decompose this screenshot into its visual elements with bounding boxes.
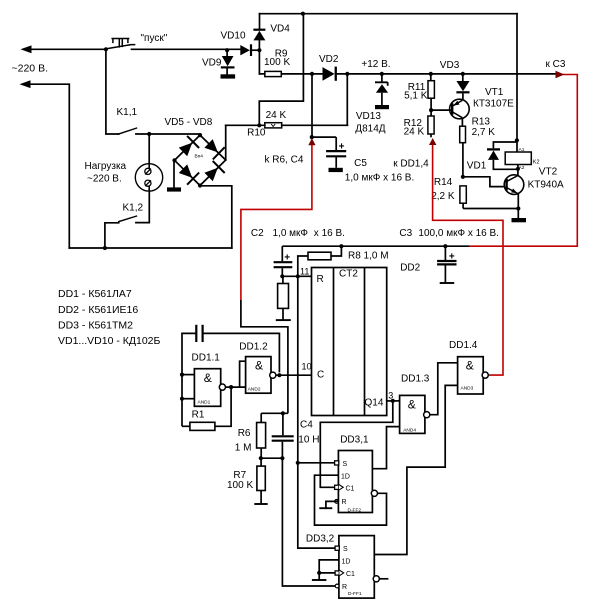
diode VD6 (bridge top-right, cathode right vertex) — [204, 139, 224, 159]
svg-text:&: & — [466, 358, 474, 372]
svg-text:11: 11 — [300, 266, 309, 276]
relay contact K1,2 blade — [119, 216, 137, 222]
wire: C2/C3 top supply rail — [282, 245, 469, 247]
wire: DD1.1 input 1 — [182, 374, 194, 376]
junction: C4 bottom — [280, 456, 284, 460]
wire: VD10 node down to R9 line — [258, 50, 260, 74]
wire: DD3.1 S input — [297, 462, 335, 464]
svg-text:+: + — [449, 252, 455, 263]
relay contact K1,1 blade — [118, 128, 136, 134]
wire: K1.1 right to bridge top vertex — [136, 133, 200, 135]
junction: VD10/VD4/R9 node — [257, 48, 261, 52]
svg-text:100 K: 100 K — [227, 480, 253, 491]
transistor VT2 KT940A (NPN) — [504, 169, 524, 218]
wire: DD1.1 input 2 — [182, 398, 194, 400]
svg-text:R1: R1 — [192, 409, 205, 420]
red arrow: к R6,C4 (points up to C5 node) — [308, 138, 315, 145]
svg-text:R: R — [342, 499, 347, 506]
DD3.1 Q-bar output bubble — [371, 490, 377, 496]
svg-text:VD9: VD9 — [202, 58, 222, 69]
diode VD4 — [253, 29, 265, 41]
junction: DD3.2 1D/C1/ground — [317, 571, 321, 575]
svg-text:R: R — [317, 274, 324, 285]
ground: VD13 (thick bar) — [375, 105, 389, 109]
svg-text:DD3,2: DD3,2 — [306, 533, 335, 544]
svg-text:C4: C4 — [300, 420, 313, 431]
junction: DD3.1 S on reset net — [296, 461, 300, 465]
diode VD8 (bridge bottom-right, cathode right vertex) — [204, 161, 224, 181]
junction: R9 right / VD2 anode / C5 branch — [310, 72, 314, 76]
svg-text:+: + — [339, 142, 345, 153]
wire: AC input line 1 — [31, 48, 106, 50]
ground: VD9 (thick bar) — [221, 74, 236, 78]
svg-text:DD2: DD2 — [400, 263, 420, 274]
wire: black continuation of к R6,C4 path down to R6/C4 — [241, 300, 288, 413]
pushbutton SB "пуск" blade — [106, 45, 135, 49]
wire: bridge bottom vertex to bottom rail — [200, 186, 232, 248]
svg-text:Q14: Q14 — [365, 398, 384, 409]
resistor R10 — [265, 123, 282, 128]
resistor R13 — [460, 126, 466, 177]
resistor R8 — [298, 246, 342, 276]
wire: K1.2 left contact to bottom rail — [105, 223, 119, 248]
gate DD1.1 (К561ЛА7) — [194, 369, 225, 407]
junction: R10 left node — [257, 123, 261, 127]
flip-flop DD3.2 (К561ТМ2) — [339, 536, 374, 599]
bridge rectifier VD5-VD8 diamond edges — [175, 135, 226, 185]
ground: R2 bottom (T-bar) — [276, 319, 291, 321]
resistor R2 (C2 discharge to ground) — [278, 276, 289, 320]
svg-text:100,0 мкФ x 16 В.: 100,0 мкФ x 16 В. — [418, 228, 499, 239]
wire: R10 line (bridge+ to R10 and VD2 cathode riser) — [226, 74, 348, 125]
red arrow: к C3 — [556, 71, 565, 78]
wire: relay supply drop from top rail — [516, 14, 518, 141]
wire: DD1.3 output to DD1.4 input — [430, 363, 458, 415]
svg-text:1 M: 1 M — [235, 442, 252, 453]
svg-text:DD1 - К561ЛА7: DD1 - К561ЛА7 — [58, 288, 132, 300]
wire: K1.1 left lead (from pushbutton node) — [106, 49, 119, 134]
wire: load top lead — [148, 134, 150, 164]
junction: DD1.1 output / R1 node — [229, 385, 233, 389]
junction: DD1.1 input 1 on rail — [180, 373, 184, 377]
junction: VD3 node on +12V rail — [461, 72, 465, 76]
relay coil K2 — [505, 140, 539, 171]
wire: top rail — [260, 13, 518, 15]
svg-text:VD4: VD4 — [270, 23, 290, 34]
counter DD2 CT2 box — [312, 268, 387, 416]
wire: VD4 top lead — [259, 14, 261, 29]
wire: main horizontal R9/VD2/+12V rail — [259, 73, 556, 75]
svg-text:S: S — [343, 546, 348, 553]
junction: C2 bottom node — [280, 274, 284, 278]
DD3.2 R input marker — [335, 584, 339, 588]
resistor R9 — [265, 71, 282, 76]
ground: C5 (thick bar) — [329, 168, 343, 172]
junction: DD1.1 input 2 on rail — [180, 397, 184, 401]
wire: bridge left vertex to ground — [173, 160, 175, 187]
wire: reset net long vertical (pin11/R8 to DD3.1 S and DD3.2 S) — [298, 276, 339, 548]
svg-text:C: C — [317, 370, 324, 381]
red arrow: к DD1,4 (points up to R12) — [429, 138, 436, 145]
wire: R10 left branch up to top rail — [259, 14, 303, 126]
svg-text:Д814Д: Д814Д — [355, 123, 385, 134]
junction: K1.2 on bottom rail — [103, 246, 107, 250]
wire: bottom rail — [69, 247, 232, 249]
svg-text:1,0 мкФ: 1,0 мкФ — [273, 228, 309, 239]
wire: bridge right vertex up to R10 line — [225, 125, 227, 160]
svg-text:VD1...VD10 - КД102Б: VD1...VD10 - КД102Б — [58, 335, 161, 347]
junction: R11 node on +12V rail — [429, 72, 433, 76]
svg-text:C2: C2 — [251, 228, 264, 239]
junction: VD13 node on +12V rail — [380, 72, 384, 76]
svg-text:DD3 - К561ТМ2: DD3 - К561ТМ2 — [58, 319, 133, 331]
capacitor C5 with leads — [312, 74, 347, 168]
junction: bridge bottom vertex — [198, 183, 202, 187]
flip-flop DD3.1 (К561ТМ2) — [338, 451, 372, 514]
junction: Q14 pin 3 node — [391, 399, 395, 403]
DD3.2 S input marker — [335, 546, 339, 550]
junction: bridge left vertex — [172, 158, 176, 162]
wire: DD1.4 lower input from DD3.2 Q — [374, 385, 457, 554]
junction: C4 top node — [281, 411, 285, 415]
svg-text:VD13: VD13 — [356, 111, 381, 122]
svg-text:&: & — [408, 398, 416, 412]
svg-text:VD5 - VD8: VD5 - VD8 — [165, 117, 213, 128]
svg-text:K2: K2 — [533, 159, 540, 165]
svg-text:AND3: AND3 — [461, 386, 474, 392]
junction: pushbutton/K1.1 node — [104, 47, 108, 51]
svg-text:А1: А1 — [519, 147, 525, 153]
junction: R6 bottom / R7 top — [259, 456, 263, 460]
svg-text:D-FF2: D-FF2 — [348, 507, 362, 513]
svg-text:VD2: VD2 — [319, 54, 339, 65]
transistor VT1 KT3107E (PNP) — [450, 99, 470, 126]
capacitor C3 — [437, 246, 456, 283]
junction: K1.1 / load node — [147, 132, 151, 136]
junction: relay bottom / VD1 anode / VT2 collector — [516, 167, 520, 171]
svg-text:VT2: VT2 — [539, 167, 558, 178]
resistor R11 — [428, 74, 434, 110]
diode VD5 (bridge top-left, anode left vertex) — [179, 136, 199, 156]
junction: DD1.2 output node (feedback tap) — [277, 373, 281, 377]
diode VD2 — [323, 67, 337, 81]
svg-text:VT1: VT1 — [485, 87, 504, 98]
svg-text:5,1 K: 5,1 K — [404, 91, 428, 102]
ground: VT2 emitter (thick bar) — [512, 218, 527, 222]
svg-text:1D: 1D — [341, 473, 350, 480]
wire: DD1.1 output to DD1.2 inputs — [226, 361, 246, 387]
resistor R6 — [257, 413, 266, 458]
svg-text:Нагрузка: Нагрузка — [85, 161, 127, 172]
diode VD1 (parallel to relay coil) — [487, 142, 518, 169]
wire: VT2 base path — [463, 177, 504, 187]
svg-text:VD3: VD3 — [440, 60, 460, 71]
resistor R7 — [257, 458, 265, 504]
junction: C5 branch node (к R6,C4 tap) — [310, 135, 314, 139]
svg-text:10 Н: 10 Н — [298, 434, 319, 445]
DD3.2 Q-bar output bubble and stub — [373, 576, 388, 582]
svg-text:C1: C1 — [346, 571, 355, 578]
diode VD9 — [221, 56, 235, 69]
svg-text:~220 В.: ~220 В. — [12, 63, 49, 75]
svg-text:100 K: 100 K — [264, 57, 290, 68]
junction: R8 left riser on pin11 line — [296, 274, 300, 278]
junction: VD2 cathode / R10 right branch — [345, 72, 349, 76]
capacitor C4 — [272, 413, 294, 458]
junction: bridge top vertex — [198, 133, 202, 137]
svg-text:~220 В.: ~220 В. — [87, 174, 122, 185]
svg-text:2,2 K: 2,2 K — [431, 191, 455, 202]
gate DD1.2 (К561ЛА7) — [246, 357, 276, 394]
ground: R7 bottom (T-bar) — [254, 503, 267, 505]
wire: VD9 bottom lead to ground — [226, 68, 228, 74]
svg-text:Вп4: Вп4 — [195, 154, 204, 160]
oscillator feedback capacitor — [182, 325, 279, 427]
AC line arrow 2 — [20, 80, 31, 88]
red wire: к C3 link (rail to C3 top) — [469, 75, 577, 247]
svg-text:24 K: 24 K — [404, 127, 425, 138]
svg-text:DD1.1: DD1.1 — [192, 353, 221, 364]
VT2 emitter arrow (NPN, pointing out) — [511, 189, 517, 194]
DD3.1 C1 input marker — [335, 485, 344, 491]
svg-text:x 16 В.: x 16 В. — [314, 228, 345, 239]
svg-text:K1,2: K1,2 — [123, 203, 144, 214]
junction: R13/R14/VT2 base node — [461, 175, 465, 179]
wire: load bottom lead to K1.2 — [136, 191, 149, 223]
AC line arrow 1 — [21, 45, 32, 53]
svg-text:DD1.2: DD1.2 — [239, 341, 268, 352]
svg-text:R13: R13 — [472, 116, 491, 127]
pushbutton actuator — [112, 39, 128, 47]
ground: bridge left vertex (thick bar) — [167, 187, 181, 191]
DD3.1 R input marker — [335, 500, 339, 504]
junction: R14/VT2 emitter node — [516, 206, 520, 210]
svg-text:VD1: VD1 — [467, 160, 487, 171]
svg-text:AND2: AND2 — [248, 386, 261, 392]
svg-text:DD1.3: DD1.3 — [401, 373, 430, 384]
svg-text:+12 В.: +12 В. — [361, 59, 390, 70]
red wire: R12 bottom to DD1.4 output (к DD1,4) — [433, 144, 503, 375]
svg-text:&: & — [204, 371, 212, 385]
svg-text:DD1.4: DD1.4 — [449, 340, 478, 351]
wire: Q14 output pin 3 — [387, 400, 400, 402]
svg-text:D-FF1: D-FF1 — [348, 591, 362, 597]
svg-text:2,7 K: 2,7 K — [472, 127, 496, 138]
diode VD10 — [240, 44, 252, 56]
svg-text:DD3,1: DD3,1 — [340, 434, 369, 445]
svg-text:S: S — [343, 461, 348, 468]
wire: DD3.1 1D feedback from Q-bar — [315, 475, 387, 525]
junction: R8 right on top rail — [339, 244, 343, 248]
svg-text:10: 10 — [302, 361, 312, 371]
capacitor C2 — [274, 246, 293, 276]
svg-text:C3: C3 — [399, 228, 412, 239]
wire: pushbutton fixed contact to VD9/VD10 — [132, 48, 241, 50]
svg-text:CT2: CT2 — [339, 269, 358, 280]
svg-text:KT940A: KT940A — [528, 180, 564, 191]
diode VD3 — [456, 74, 469, 99]
svg-text:к C3: к C3 — [546, 59, 566, 70]
ground: DD3.2 1D/C1 (T-bar) — [312, 579, 327, 581]
wire: Q14 node down to DD3.1 C1 — [320, 401, 393, 487]
DD3.2 C1 input marker — [335, 570, 344, 576]
wire: counter R pin 11 line — [282, 275, 311, 277]
wire: DD3.2 1D/C1 tie to ground — [319, 560, 339, 580]
svg-text:1,0 мкФ x 16 В.: 1,0 мкФ x 16 В. — [345, 173, 414, 184]
svg-text:R10: R10 — [247, 128, 266, 139]
wire: DD1.2 output to counter C pin — [276, 374, 312, 376]
junction: relay top / VD1 cathode — [515, 138, 519, 142]
wire: DD1.3 lower input from DD3.1 Q — [372, 427, 399, 469]
svg-text:"пуск": "пуск" — [141, 33, 168, 44]
diode VD7 (bridge bottom-left, cathode bottom vertex) — [179, 164, 199, 184]
svg-text:1D: 1D — [342, 558, 351, 565]
wire: VD9 top lead — [226, 50, 228, 56]
DD3.1 S input marker — [335, 461, 339, 465]
wire: VD10 cathode to VD4 node — [252, 49, 259, 51]
svg-text:C5: C5 — [354, 158, 367, 169]
svg-text:КТ3107Е: КТ3107Е — [473, 99, 514, 110]
lamp load Нагрузка ~220В — [135, 164, 162, 191]
gate DD1.4 (К561ЛА7) — [458, 357, 489, 394]
svg-text:AND1: AND1 — [198, 400, 211, 406]
wire: C4 bottom down to DD3.2 R pin — [282, 458, 339, 586]
zener diode VD13 Д814Д — [375, 74, 388, 105]
red wire: к R6,C4 link — [241, 145, 312, 301]
svg-text:24 K: 24 K — [266, 110, 287, 121]
svg-text:AND4: AND4 — [403, 427, 416, 433]
svg-text:+: + — [284, 253, 290, 264]
resistor R14 — [460, 186, 519, 209]
resistor R12 — [428, 110, 434, 137]
junction: C3 top on rail — [443, 244, 447, 248]
svg-text:DD2 - К561ИЕ16: DD2 - К561ИЕ16 — [58, 304, 138, 316]
junction: top rail / R10 branch — [301, 12, 305, 16]
ground: DD3.1 R (T-bar) — [319, 507, 332, 509]
VT1 emitter arrow (PNP, pointing to base) — [453, 101, 459, 106]
svg-text:R6: R6 — [238, 428, 251, 439]
wire: AC input line 2 to left rail — [30, 84, 69, 248]
svg-text:K1,1: K1,1 — [117, 107, 138, 118]
svg-text:R14: R14 — [434, 177, 453, 188]
junction: VD9 node — [225, 48, 229, 52]
svg-text:k R6, C4: k R6, C4 — [265, 155, 304, 166]
svg-text:к DD1,4: к DD1,4 — [393, 158, 429, 169]
svg-text:C1: C1 — [346, 485, 355, 492]
resistor R1 — [182, 387, 231, 430]
svg-text:VD10: VD10 — [221, 31, 246, 42]
svg-text:R: R — [342, 584, 347, 591]
svg-text:R8 1,0 M: R8 1,0 M — [348, 251, 389, 262]
junction: R11/R12/VT1 base — [429, 108, 433, 112]
svg-text:&: & — [255, 358, 263, 372]
wire: VT1 base — [431, 109, 452, 111]
wire: R6/C4/R7 bottom junction line — [261, 457, 283, 459]
wire: DD3.1 R to ground — [326, 501, 339, 508]
gate DD1.3 (К561ЛА7) — [400, 395, 430, 433]
wire: VD4 bottom lead to VD10 node — [258, 40, 260, 50]
wire: R6/C4 top junction line — [261, 412, 288, 414]
